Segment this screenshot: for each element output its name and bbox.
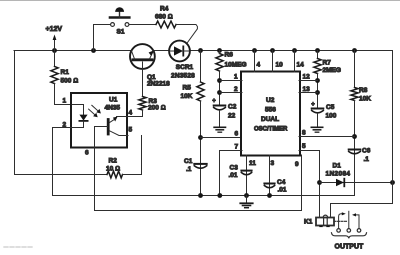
node gnd pin7 line (217, 193, 222, 198)
svg-text:OUTPUT: OUTPUT (335, 244, 365, 251)
wire pin13 (299, 92, 318, 94)
capacitor C3 (241, 170, 251, 172)
resistor R2 (107, 171, 123, 178)
svg-text:2N2218: 2N2218 (147, 81, 170, 88)
wire pin2 (220, 92, 243, 94)
node S1 branch (91, 48, 96, 53)
svg-text:R8: R8 (359, 87, 368, 94)
wire S1 to R4 (129, 24, 156, 26)
svg-text:10MEG: 10MEG (225, 62, 247, 69)
wire R7 to C5 (317, 74, 319, 108)
svg-text:5: 5 (302, 143, 306, 150)
svg-text:SCR1: SCR1 (176, 64, 194, 71)
node pin2 (217, 90, 222, 95)
switch S1 (111, 23, 115, 27)
wire pin8 (299, 136, 355, 138)
resistor R7 (317, 51, 319, 59)
ground bus (54, 195, 355, 197)
node pin6 tee (198, 135, 203, 140)
resistor R5 (200, 51, 202, 83)
capacitor C1 (194, 163, 206, 165)
svg-text:U2: U2 (266, 97, 275, 104)
svg-text:2: 2 (234, 86, 238, 93)
svg-text:1N2084: 1N2084 (326, 171, 351, 178)
wire pin5 (299, 151, 320, 218)
svg-text:R5: R5 (183, 85, 192, 92)
relay contact pole right (357, 229, 361, 233)
svg-text:6: 6 (235, 131, 239, 138)
svg-text:500 Ω: 500 Ω (61, 78, 79, 85)
U2 pin 4 stub (252, 48, 257, 53)
svg-text:4: 4 (257, 62, 261, 69)
svg-text:DUAL: DUAL (261, 116, 279, 123)
optocoupler U1 box (71, 93, 127, 148)
wire R4 to SCR gate (176, 25, 197, 43)
timer U2 box (241, 72, 300, 156)
node SCR cathode (198, 48, 203, 53)
node gnd pin3 line (267, 193, 272, 198)
svg-text:R7: R7 (323, 60, 332, 67)
node D1 cathode rail (390, 180, 395, 185)
wire U2 pin11 (246, 155, 248, 196)
svg-text:.1: .1 (364, 156, 370, 163)
wire left rail (15, 51, 108, 175)
ground C5 (311, 126, 322, 128)
svg-text:4: 4 (129, 110, 133, 117)
relay contact link dashed (334, 220, 348, 222)
svg-text:1: 1 (234, 74, 238, 81)
svg-text:+: + (212, 98, 216, 104)
svg-text:C1: C1 (184, 158, 193, 165)
node gnd R5 line (198, 193, 203, 198)
node R8 top (352, 48, 357, 53)
svg-text:R2: R2 (109, 158, 118, 165)
svg-text:U1: U1 (109, 97, 118, 104)
svg-text:.01: .01 (278, 187, 287, 194)
SCR SCR1 (169, 41, 190, 62)
svg-text:C5: C5 (326, 104, 335, 111)
wire R5 down to ground bus (200, 101, 202, 196)
U1 light arrows (92, 105, 98, 111)
relay K1 coil (316, 218, 334, 226)
capacitor C4 (264, 183, 274, 185)
svg-text:200 Ω: 200 Ω (148, 105, 166, 112)
node pin13 (315, 90, 320, 95)
wire U2 pin9 to U1 base (95, 155, 302, 211)
transistor Q1 (130, 44, 155, 69)
svg-text:4N35: 4N35 (105, 105, 121, 112)
wire R8 to ground bus (354, 101, 356, 196)
wire R2 right to U1 pin5 drop (123, 136, 142, 175)
svg-text:100: 100 (326, 113, 337, 120)
ground C2 (214, 126, 225, 128)
node pin8 (352, 134, 357, 139)
wire R6 to C2 (219, 71, 221, 105)
svg-text:+12V: +12V (46, 26, 63, 33)
wire pin1 (220, 80, 243, 82)
U2 pin 14 stub (292, 48, 297, 53)
svg-text:2N3528: 2N3528 (171, 72, 195, 79)
svg-text:C3: C3 (230, 165, 239, 172)
wire U2 pin3 (269, 155, 271, 196)
wire pin7 (220, 151, 243, 196)
ground main (246, 196, 248, 203)
svg-text:+: + (311, 102, 315, 108)
svg-text:14: 14 (297, 62, 305, 69)
svg-text:.01: .01 (229, 172, 238, 179)
svg-text:D1: D1 (333, 163, 342, 170)
wire S1 branch (94, 25, 111, 51)
resistor R6 (216, 54, 223, 72)
resistor R1 (54, 51, 56, 67)
svg-text:C6: C6 (362, 148, 371, 155)
resistor R8 (354, 51, 356, 88)
watermark artifact (4, 246, 33, 248)
svg-text:11: 11 (249, 160, 256, 167)
svg-text:R1: R1 (61, 69, 70, 76)
svg-text:22: 22 (228, 113, 236, 120)
U2 pin 10 stub (270, 48, 275, 53)
svg-text:5: 5 (129, 127, 133, 134)
node +12V terminal (52, 48, 57, 53)
relay contact pole center (347, 229, 351, 233)
svg-text:1: 1 (63, 98, 67, 105)
node R6 top (217, 48, 222, 53)
svg-text:OSC/TIMER: OSC/TIMER (254, 127, 288, 133)
U1 LED (72, 105, 84, 115)
node gnd pin11 line (244, 193, 249, 198)
node D1 anode (317, 180, 322, 185)
U1 phototransistor (107, 120, 110, 135)
svg-text:2: 2 (63, 122, 67, 129)
diode D1 (320, 182, 393, 184)
svg-text:.1: .1 (186, 166, 192, 173)
svg-text:10: 10 (276, 62, 284, 69)
border top (0, 0, 400, 2)
svg-text:C4: C4 (277, 179, 286, 186)
svg-text:10K: 10K (181, 93, 193, 100)
svg-text:S1: S1 (117, 28, 125, 35)
wire R3 to U1 pin4 (126, 110, 143, 117)
relay contact pole left (337, 229, 341, 233)
wire right rail (331, 51, 393, 218)
wire +12V bus (14, 50, 393, 52)
svg-text:2MEG: 2MEG (323, 67, 341, 74)
svg-text:6: 6 (85, 150, 89, 157)
wire pin12 (299, 80, 318, 82)
resistor R3 (139, 97, 146, 111)
svg-text:K1: K1 (304, 219, 313, 226)
svg-text:8: 8 (302, 130, 306, 137)
svg-text:7: 7 (235, 144, 239, 151)
wire R1 to U1 pin1 (55, 84, 73, 105)
svg-text:9: 9 (295, 161, 299, 168)
node pin12 (315, 78, 320, 83)
svg-text:R4: R4 (160, 6, 169, 13)
wire Q1 base to R3 (142, 62, 144, 97)
svg-text:13: 13 (303, 86, 311, 93)
svg-text:556: 556 (265, 107, 276, 114)
wire pin6 U2 (201, 137, 243, 139)
svg-text:10K: 10K (359, 96, 371, 103)
svg-text:12: 12 (303, 74, 311, 81)
output brace (332, 233, 367, 239)
svg-text:3: 3 (271, 160, 275, 167)
svg-text:10 Ω: 10 Ω (106, 166, 120, 173)
svg-text:680 Ω: 680 Ω (155, 14, 173, 21)
svg-text:C2: C2 (228, 104, 237, 111)
svg-text:R6: R6 (225, 52, 234, 59)
capacitor C6 (349, 149, 361, 151)
node R7 top (315, 48, 320, 53)
node pin1 (217, 78, 222, 83)
resistor R4 (156, 21, 176, 28)
